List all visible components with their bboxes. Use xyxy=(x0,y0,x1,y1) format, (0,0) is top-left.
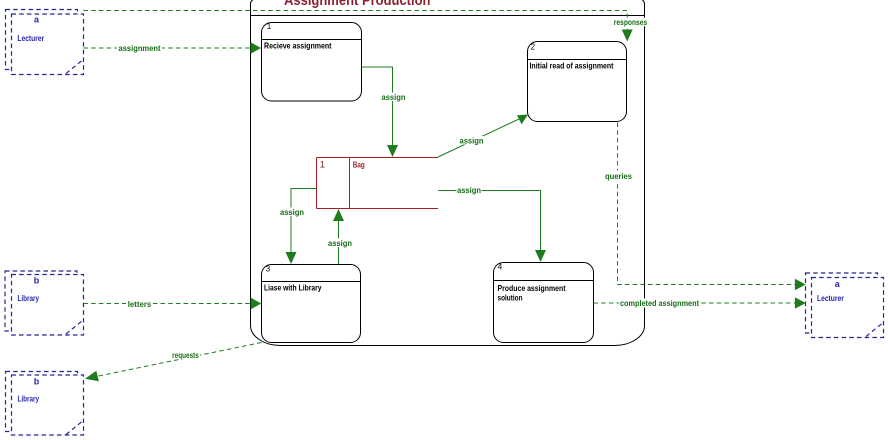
process 4 Produce assignment solution xyxy=(494,263,594,343)
process 3 Liase with Library xyxy=(262,265,361,343)
svg-text:3: 3 xyxy=(266,265,271,274)
title separator line xyxy=(251,15,645,17)
svg-text:completed assignment: completed assignment xyxy=(620,298,699,308)
external entity a Lecturer (right) xyxy=(806,273,884,338)
svg-text:b: b xyxy=(34,377,40,387)
svg-text:requests: requests xyxy=(172,350,199,360)
svg-text:2: 2 xyxy=(531,42,536,51)
flow requests (process 3 -> Library bottom) xyxy=(96,343,262,377)
svg-text:solution: solution xyxy=(498,293,523,303)
svg-text:1: 1 xyxy=(267,22,272,31)
svg-text:Library: Library xyxy=(18,394,40,404)
flow queries (process 2 -> Lecturer right) xyxy=(618,123,796,285)
svg-text:assign: assign xyxy=(382,92,406,102)
external entity b Library (bottom-left) xyxy=(6,372,84,436)
process 1 Recieve assignment xyxy=(262,23,362,102)
svg-text:Liase with Library: Liase with Library xyxy=(264,283,322,293)
svg-text:Lecturer: Lecturer xyxy=(817,293,844,303)
flow assign (process 1 -> store) xyxy=(362,67,393,147)
external entity a Lecturer (top-left) xyxy=(6,10,84,75)
svg-text:1: 1 xyxy=(320,159,325,170)
flow assign (store -> process 4) xyxy=(438,191,541,252)
flow responses (Lecturer -> process 2) xyxy=(84,11,628,31)
svg-text:letters: letters xyxy=(128,299,152,309)
flow assign (store -> process 3) xyxy=(291,189,317,254)
svg-text:Bag: Bag xyxy=(353,160,365,170)
svg-text:Assignment Production: Assignment Production xyxy=(284,0,431,9)
svg-text:b: b xyxy=(34,276,40,286)
flow assign (store -> process 2, diagonal) xyxy=(438,119,519,157)
external entity b Library (mid-left) xyxy=(5,271,84,335)
flow assignment (Lecturer -> process 1) xyxy=(84,47,251,49)
svg-text:Initial read of assignment: Initial read of assignment xyxy=(530,60,614,70)
svg-text:Recieve assignment: Recieve assignment xyxy=(264,41,332,51)
svg-text:assign: assign xyxy=(328,238,352,248)
svg-text:assignment: assignment xyxy=(119,43,161,53)
svg-text:assign: assign xyxy=(457,185,481,195)
system boundary frame xyxy=(251,0,645,346)
flow assign (process 3 -> store) xyxy=(338,219,340,265)
svg-text:responses: responses xyxy=(614,17,648,27)
svg-text:assign: assign xyxy=(460,136,484,146)
svg-text:queries: queries xyxy=(605,171,632,181)
svg-text:Lecturer: Lecturer xyxy=(17,33,44,43)
data store 1 Bag xyxy=(317,158,439,209)
process 2 Initial read of assignment xyxy=(528,42,627,122)
flow letters (Library -> process 3) xyxy=(84,303,251,305)
svg-text:Produce assignment: Produce assignment xyxy=(498,283,566,293)
svg-text:assign: assign xyxy=(280,207,304,217)
svg-text:Library: Library xyxy=(18,293,40,303)
svg-text:4: 4 xyxy=(498,263,503,272)
flow completed assignment (process 4 -> Lecturer right) xyxy=(594,302,796,304)
